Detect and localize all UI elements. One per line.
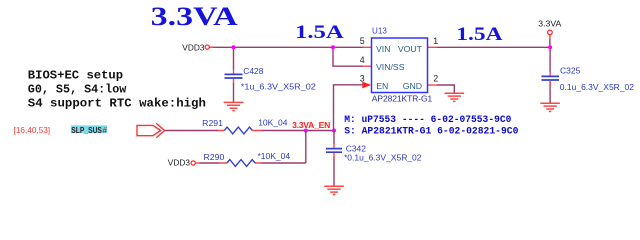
resistor R291: [218, 130, 262, 132]
capacitor C428: [225, 74, 243, 78]
wire R290 to junction: [262, 131, 306, 164]
capacitor C342: [326, 149, 342, 153]
svg-text:U13: U13: [372, 25, 387, 35]
svg-text:C428: C428: [243, 66, 264, 76]
port connector SLP_SUS arrow: [137, 123, 165, 137]
svg-text:VDD3: VDD3: [168, 157, 191, 167]
wire C428 branch: [233, 47, 235, 102]
pin stub VOUT pin1: [428, 46, 438, 48]
svg-text:1.5A: 1.5A: [456, 24, 503, 45]
svg-text:5: 5: [360, 36, 365, 46]
ground C342: [324, 186, 344, 194]
svg-text:S4 support RTC wake:high: S4 support RTC wake:high: [28, 97, 206, 111]
svg-text:*1u_6.3V_X5R_02: *1u_6.3V_X5R_02: [241, 82, 316, 92]
svg-text:VDD3: VDD3: [182, 42, 205, 52]
wire VDD3 to R290: [196, 162, 200, 164]
net label SLP_SUS# highlighted: [71, 125, 108, 135]
part note M/S: [344, 115, 518, 137]
wire EN riser: [334, 85, 363, 131]
svg-text:VOUT: VOUT: [398, 44, 423, 54]
svg-text:#: #: [102, 125, 107, 135]
svg-text:0.1u_6.3V_X5R_02: 0.1u_6.3V_X5R_02: [560, 82, 634, 92]
junction C428: [232, 45, 236, 49]
note text BIOS+EC: [28, 69, 206, 111]
wire VIN/SS branch: [333, 47, 363, 66]
svg-text:M: uP7553 ---- 6-02-07553-9C0: M: uP7553 ---- 6-02-07553-9C0: [344, 115, 511, 126]
ground C428: [224, 102, 244, 110]
ground C325: [540, 103, 560, 111]
svg-text:C325: C325: [560, 66, 581, 76]
svg-text:SLP_SUS: SLP_SUS: [71, 125, 102, 135]
svg-text:10K_04: 10K_04: [258, 117, 288, 127]
op chip U13 box: [372, 38, 428, 93]
ground chip GND: [445, 93, 465, 101]
wire VOUT to 3.3VA: [437, 46, 550, 48]
wire GND pin to ground: [437, 85, 454, 93]
pin stub VIN/SS pin4: [363, 65, 372, 67]
svg-text:*0.1u_6.3V_X5R_02: *0.1u_6.3V_X5R_02: [344, 152, 422, 162]
svg-text:BIOS+EC setup: BIOS+EC setup: [28, 69, 123, 83]
svg-text:EN: EN: [376, 81, 388, 91]
svg-text:*10K_04: *10K_04: [258, 151, 291, 161]
svg-text:GND: GND: [403, 81, 422, 91]
svg-text:4: 4: [360, 55, 365, 65]
wire SLP_SUS to R291: [165, 130, 218, 132]
svg-text:3.3VA: 3.3VA: [538, 18, 561, 28]
svg-text:VIN/SS: VIN/SS: [376, 62, 405, 72]
wire R291 to junction: [262, 130, 335, 132]
svg-text:AP2821KTR-G1: AP2821KTR-G1: [372, 94, 433, 104]
wire 3.3VA drop: [549, 35, 551, 39]
pin stub GND pin2: [428, 84, 438, 86]
wire C342 branch: [333, 131, 335, 186]
svg-text:G0, S5, S4:low: G0, S5, S4:low: [28, 83, 127, 97]
junction C342/EN: [332, 129, 336, 133]
svg-text:3.3VA_EN: 3.3VA_EN: [292, 120, 330, 130]
svg-text:R290: R290: [204, 152, 225, 162]
svg-text:1.5A: 1.5A: [295, 22, 344, 43]
capacitor C325: [542, 76, 560, 80]
EN input arrow: [362, 82, 371, 89]
svg-text:[16,40,53]: [16,40,53]: [14, 125, 51, 135]
wire top rail VDD3 to VIN: [210, 46, 364, 48]
svg-text:2: 2: [433, 74, 438, 84]
svg-text:VIN: VIN: [376, 44, 390, 54]
pin stub VIN pin5: [210, 46, 372, 48]
junction R290: [304, 129, 308, 133]
svg-text:3: 3: [360, 74, 365, 84]
svg-text:S: AP2821KTR-G1 6-02-02821-9C0: S: AP2821KTR-G1 6-02-02821-9C0: [344, 126, 518, 137]
svg-text:1: 1: [433, 36, 438, 46]
junction VIN/SS: [331, 45, 335, 49]
svg-text:3.3VA: 3.3VA: [151, 2, 238, 31]
svg-text:R291: R291: [202, 118, 223, 128]
resistor R290: [219, 162, 262, 164]
junction 3.3VA: [548, 45, 552, 49]
